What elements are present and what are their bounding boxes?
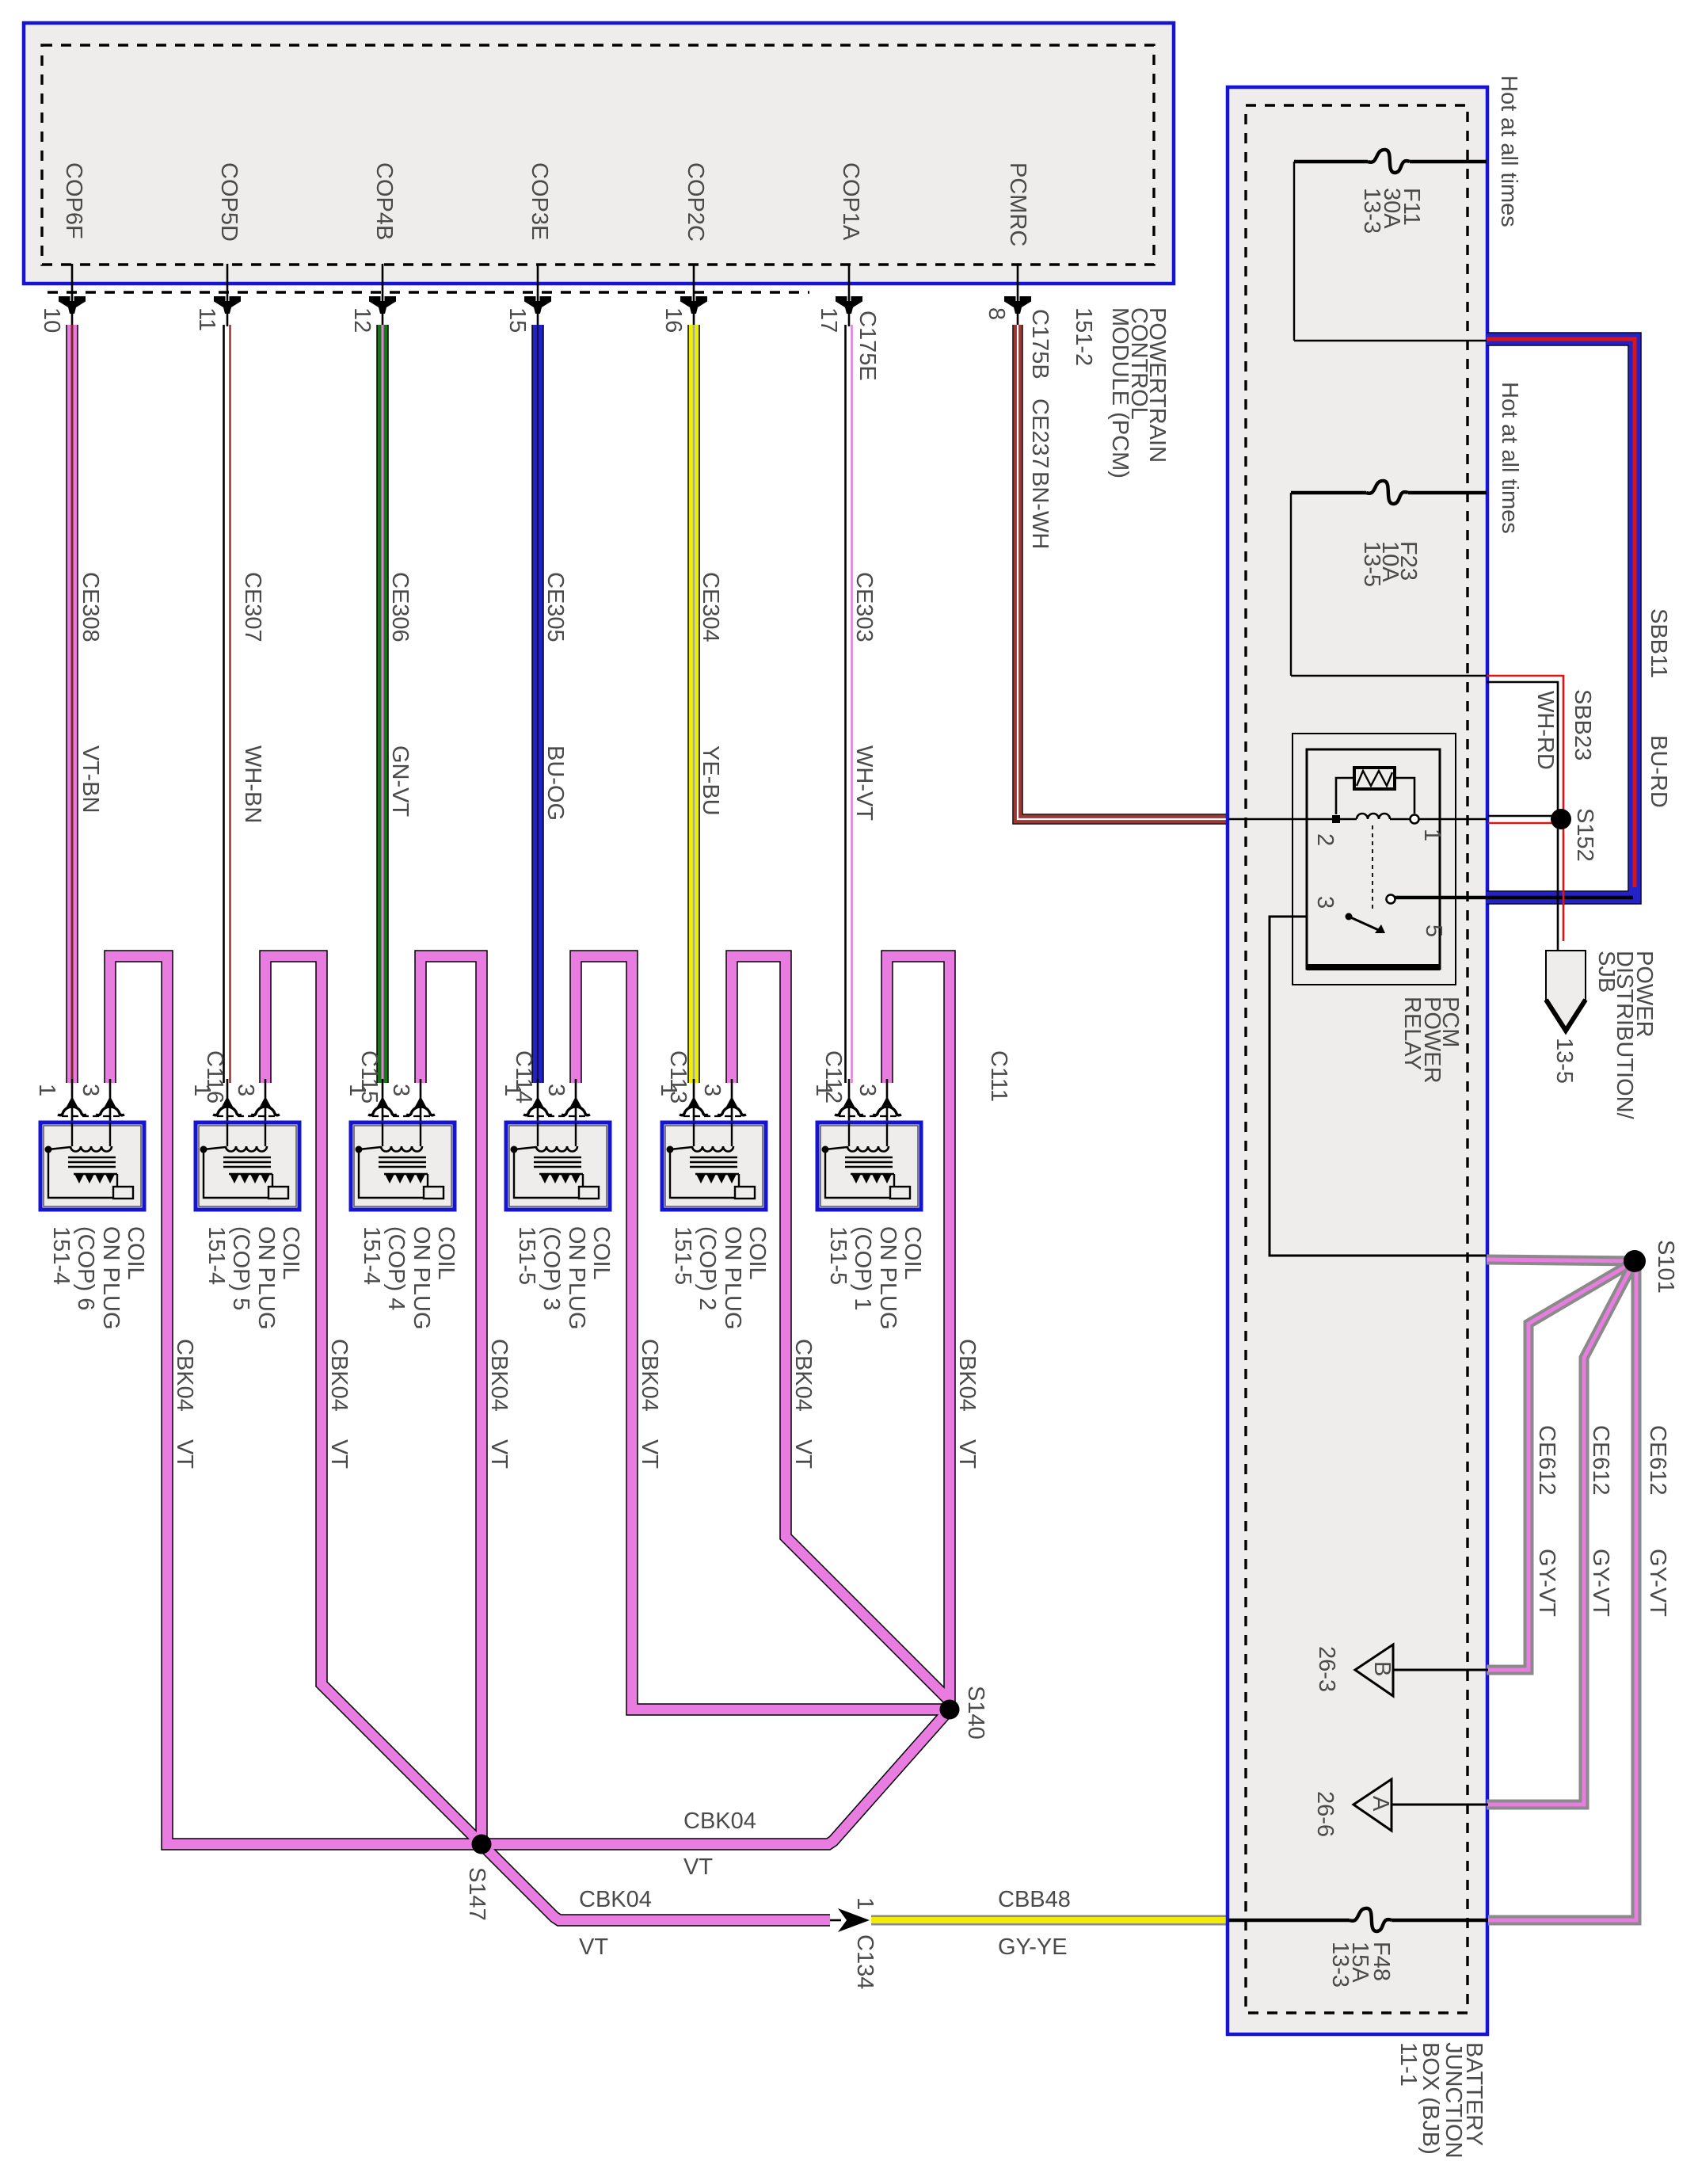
svg-text:CBK04: CBK04 <box>326 1339 352 1412</box>
svg-text:WH-VT: WH-VT <box>851 745 877 821</box>
svg-text:3: 3 <box>855 1084 880 1096</box>
svg-text:C134: C134 <box>852 1934 878 1989</box>
svg-text:CE308: CE308 <box>78 572 103 642</box>
svg-text:YE-BU: YE-BU <box>698 745 723 816</box>
svg-text:151-2: 151-2 <box>1071 307 1096 366</box>
svg-text:151-5: 151-5 <box>825 1226 851 1285</box>
svg-text:SJB: SJB <box>1593 951 1619 993</box>
svg-text:8: 8 <box>984 307 1009 320</box>
svg-text:CE612: CE612 <box>1588 1425 1613 1496</box>
svg-text:COIL: COIL <box>433 1226 459 1280</box>
svg-text:(COP) 4: (COP) 4 <box>383 1226 409 1310</box>
svg-text:BU-RD: BU-RD <box>1646 735 1671 808</box>
svg-text:GY-VT: GY-VT <box>1588 1549 1613 1617</box>
svg-text:COIL: COIL <box>744 1226 770 1280</box>
svg-text:ON PLUG: ON PLUG <box>720 1226 745 1330</box>
svg-text:11-1: 11-1 <box>1395 2042 1421 2087</box>
svg-text:Hot at all times: Hot at all times <box>1496 75 1521 227</box>
svg-text:13-5: 13-5 <box>1551 1038 1577 1084</box>
svg-text:13-3: 13-3 <box>1359 188 1384 234</box>
svg-text:CBK04: CBK04 <box>579 1887 652 1912</box>
svg-text:1: 1 <box>811 1084 836 1096</box>
svg-text:17: 17 <box>816 307 841 333</box>
svg-text:PCMRC: PCMRC <box>1005 162 1030 246</box>
svg-text:GY-VT: GY-VT <box>1645 1549 1670 1617</box>
svg-text:VT: VT <box>683 1854 713 1880</box>
svg-text:CE307: CE307 <box>240 572 265 642</box>
svg-text:(COP) 2: (COP) 2 <box>695 1226 720 1310</box>
svg-text:COP4B: COP4B <box>371 162 397 240</box>
svg-text:ON PLUG: ON PLUG <box>98 1226 124 1330</box>
svg-text:WH-RD: WH-RD <box>1532 691 1558 770</box>
svg-text:(COP) 5: (COP) 5 <box>228 1226 253 1310</box>
svg-text:Hot at all times: Hot at all times <box>1497 382 1522 534</box>
svg-text:VT: VT <box>326 1439 352 1469</box>
svg-text:S152: S152 <box>1572 808 1597 862</box>
svg-text:C111: C111 <box>986 1050 1011 1102</box>
svg-text:COP1A: COP1A <box>838 162 863 241</box>
svg-text:C175B: C175B <box>1027 309 1053 379</box>
svg-text:COP2C: COP2C <box>683 162 708 242</box>
svg-text:COP3E: COP3E <box>527 162 552 240</box>
svg-text:WH-BN: WH-BN <box>240 745 265 823</box>
svg-text:1: 1 <box>1419 829 1445 841</box>
svg-text:3: 3 <box>388 1084 413 1096</box>
svg-text:BU-OG: BU-OG <box>543 745 568 821</box>
svg-text:10: 10 <box>39 307 64 333</box>
svg-text:3: 3 <box>78 1084 103 1096</box>
svg-text:RELAY: RELAY <box>1399 997 1425 1070</box>
svg-text:S140: S140 <box>963 1686 988 1740</box>
svg-text:5: 5 <box>1421 924 1446 937</box>
svg-text:CBK04: CBK04 <box>790 1339 816 1412</box>
svg-text:C175E: C175E <box>855 311 880 381</box>
svg-text:COIL: COIL <box>900 1226 925 1280</box>
svg-text:ON PLUG: ON PLUG <box>564 1226 589 1330</box>
svg-text:GN-VT: GN-VT <box>387 745 413 818</box>
svg-text:VT: VT <box>954 1439 980 1469</box>
svg-text:MODULE (PCM): MODULE (PCM) <box>1107 307 1133 478</box>
svg-text:GY-VT: GY-VT <box>1534 1549 1559 1617</box>
svg-text:26-6: 26-6 <box>1312 1791 1338 1837</box>
svg-text:COIL: COIL <box>123 1226 148 1280</box>
svg-text:SBB23: SBB23 <box>1570 689 1595 760</box>
svg-text:COIL: COIL <box>588 1226 614 1280</box>
svg-text:11: 11 <box>194 307 219 331</box>
svg-text:(COP) 1: (COP) 1 <box>850 1226 875 1310</box>
svg-text:CBK04: CBK04 <box>954 1339 980 1412</box>
svg-text:ON PLUG: ON PLUG <box>253 1226 279 1330</box>
svg-text:JUNCTION: JUNCTION <box>1441 2042 1466 2159</box>
svg-text:SBB11: SBB11 <box>1646 608 1671 678</box>
svg-text:VT-BN: VT-BN <box>78 745 103 813</box>
svg-text:151-4: 151-4 <box>204 1226 229 1285</box>
svg-text:CE303: CE303 <box>851 572 877 642</box>
svg-text:151-5: 151-5 <box>514 1226 539 1285</box>
svg-text:12: 12 <box>349 307 375 333</box>
svg-text:151-4: 151-4 <box>359 1226 384 1285</box>
svg-text:B: B <box>1369 1661 1395 1676</box>
svg-text:VT: VT <box>486 1439 512 1469</box>
svg-text:CE305: CE305 <box>543 572 568 642</box>
svg-text:CBK04: CBK04 <box>486 1339 512 1412</box>
svg-text:(COP) 6: (COP) 6 <box>73 1226 98 1310</box>
svg-text:1: 1 <box>34 1084 59 1096</box>
svg-text:S101: S101 <box>1653 1240 1678 1294</box>
svg-text:3: 3 <box>1312 896 1338 909</box>
svg-text:13-3: 13-3 <box>1327 1942 1353 1988</box>
svg-text:CBB48: CBB48 <box>998 1887 1071 1912</box>
svg-text:1: 1 <box>189 1084 215 1096</box>
svg-text:13-5: 13-5 <box>1359 541 1384 587</box>
svg-text:S147: S147 <box>464 1867 489 1921</box>
svg-text:1: 1 <box>852 1897 878 1910</box>
svg-text:151-5: 151-5 <box>670 1226 695 1285</box>
svg-text:CBK04: CBK04 <box>637 1339 662 1412</box>
svg-text:COIL: COIL <box>278 1226 303 1280</box>
svg-text:26-3: 26-3 <box>1314 1646 1339 1692</box>
svg-text:BN-WH: BN-WH <box>1027 471 1053 549</box>
svg-text:CBK04: CBK04 <box>683 1809 756 1834</box>
svg-text:VT: VT <box>790 1439 816 1469</box>
svg-text:CBK04: CBK04 <box>172 1339 197 1412</box>
svg-text:CE612: CE612 <box>1534 1425 1559 1496</box>
svg-text:151-4: 151-4 <box>48 1226 74 1285</box>
svg-text:ON PLUG: ON PLUG <box>875 1226 900 1330</box>
svg-text:3: 3 <box>543 1084 569 1096</box>
svg-text:CE237: CE237 <box>1027 398 1053 469</box>
svg-text:16: 16 <box>661 307 686 333</box>
svg-text:GY-YE: GY-YE <box>998 1934 1068 1960</box>
svg-text:15: 15 <box>504 307 530 333</box>
svg-text:COP5D: COP5D <box>216 162 242 242</box>
svg-text:(COP) 3: (COP) 3 <box>539 1226 564 1310</box>
svg-text:1: 1 <box>656 1084 681 1096</box>
svg-text:COP6F: COP6F <box>61 162 86 239</box>
svg-text:ON PLUG: ON PLUG <box>409 1226 434 1330</box>
svg-text:CE306: CE306 <box>387 572 413 642</box>
svg-text:CE304: CE304 <box>698 572 723 642</box>
svg-text:A: A <box>1368 1796 1393 1812</box>
svg-text:VT: VT <box>172 1439 197 1469</box>
svg-text:3: 3 <box>699 1084 725 1096</box>
svg-text:1: 1 <box>500 1084 525 1096</box>
svg-text:1: 1 <box>345 1084 370 1096</box>
svg-text:CE612: CE612 <box>1645 1425 1670 1496</box>
svg-text:3: 3 <box>233 1084 258 1096</box>
svg-text:2: 2 <box>1312 833 1338 846</box>
svg-text:VT: VT <box>579 1934 608 1960</box>
svg-text:VT: VT <box>637 1439 662 1469</box>
